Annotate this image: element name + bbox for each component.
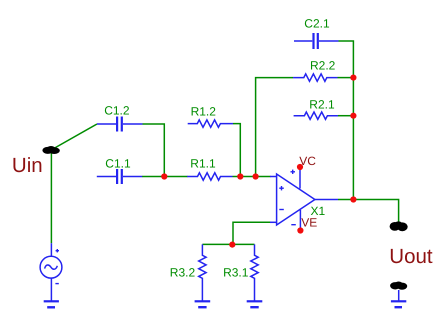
junction dot R2.2 branch <box>253 173 259 179</box>
wire R1.2 right down to main node <box>233 124 240 177</box>
source plus marker <box>56 249 59 252</box>
wire output to Uout terminal <box>338 200 399 223</box>
wire Uin terminal down to source <box>50 151 52 243</box>
junction dot R2.2 right <box>350 75 356 81</box>
node Uout terminal blob <box>390 221 408 231</box>
source minus marker <box>55 283 58 285</box>
op-amp minus marker (VE pin) <box>291 224 296 226</box>
wire C2.1 right down to output node <box>339 41 354 200</box>
capacitor C1.2 <box>97 117 143 132</box>
node Uin terminal blob <box>42 146 59 154</box>
op-amp plus marker (input) <box>279 186 284 190</box>
ground under R3.1 <box>247 301 263 307</box>
wire R2.1 right <box>338 115 353 117</box>
wire main node C1.1 to R1.1 <box>142 176 188 178</box>
op-amp U1 triangle <box>270 167 338 231</box>
op-amp plus marker (VC pin) <box>291 170 296 174</box>
pin dot VC <box>297 164 303 170</box>
AC source V1 <box>40 243 62 301</box>
resistor R1.2 <box>188 120 233 127</box>
wire R3 bar <box>202 243 254 245</box>
ground under source <box>44 301 59 307</box>
junction dot R2.1 right <box>350 113 356 119</box>
svg-text:R1.1: R1.1 <box>190 157 216 171</box>
capacitor C1.1 <box>97 169 142 184</box>
svg-text:R1.2: R1.2 <box>191 104 217 118</box>
svg-text:R3.2: R3.2 <box>170 265 196 279</box>
resistor R3.1 (vertical) <box>251 244 258 300</box>
svg-text:R3.1: R3.1 <box>223 265 249 279</box>
junction dot R3 node <box>229 242 235 248</box>
svg-text:C1.2: C1.2 <box>104 103 130 117</box>
ground under R3.2 <box>195 301 211 307</box>
wire R2.2 left down to main node <box>256 78 293 177</box>
wire R2.2 right <box>338 77 354 79</box>
svg-text:R2.1: R2.1 <box>309 97 335 111</box>
svg-text:Uin: Uin <box>12 154 43 177</box>
junction dot C1 node <box>161 173 167 179</box>
pin dot VE <box>297 227 303 233</box>
wire C1.2 right <box>143 124 165 177</box>
resistor R2.2 <box>293 74 338 81</box>
junction dot R1 node <box>237 173 243 179</box>
ground terminal blob <box>390 282 407 290</box>
svg-text:Uout: Uout <box>389 245 433 268</box>
svg-text:C2.1: C2.1 <box>304 17 330 31</box>
resistor R2.1 <box>294 112 338 119</box>
capacitor C2.1 <box>294 33 339 49</box>
ground terminal at Uout <box>391 290 406 307</box>
op-amp minus marker (input) <box>279 209 284 211</box>
resistor R1.1 <box>187 173 232 180</box>
svg-text:VE: VE <box>301 215 317 229</box>
svg-text:C1.1: C1.1 <box>105 156 131 170</box>
wire op-amp minus input to R3 junction <box>233 222 271 244</box>
wire R1.1 to op-amp plus input <box>233 176 271 178</box>
junction dot output node <box>350 196 356 202</box>
wire diagonal Uin to C1.2 <box>52 124 97 150</box>
resistor R3.2 (vertical) <box>199 244 206 300</box>
svg-text:R2.2: R2.2 <box>310 59 336 73</box>
